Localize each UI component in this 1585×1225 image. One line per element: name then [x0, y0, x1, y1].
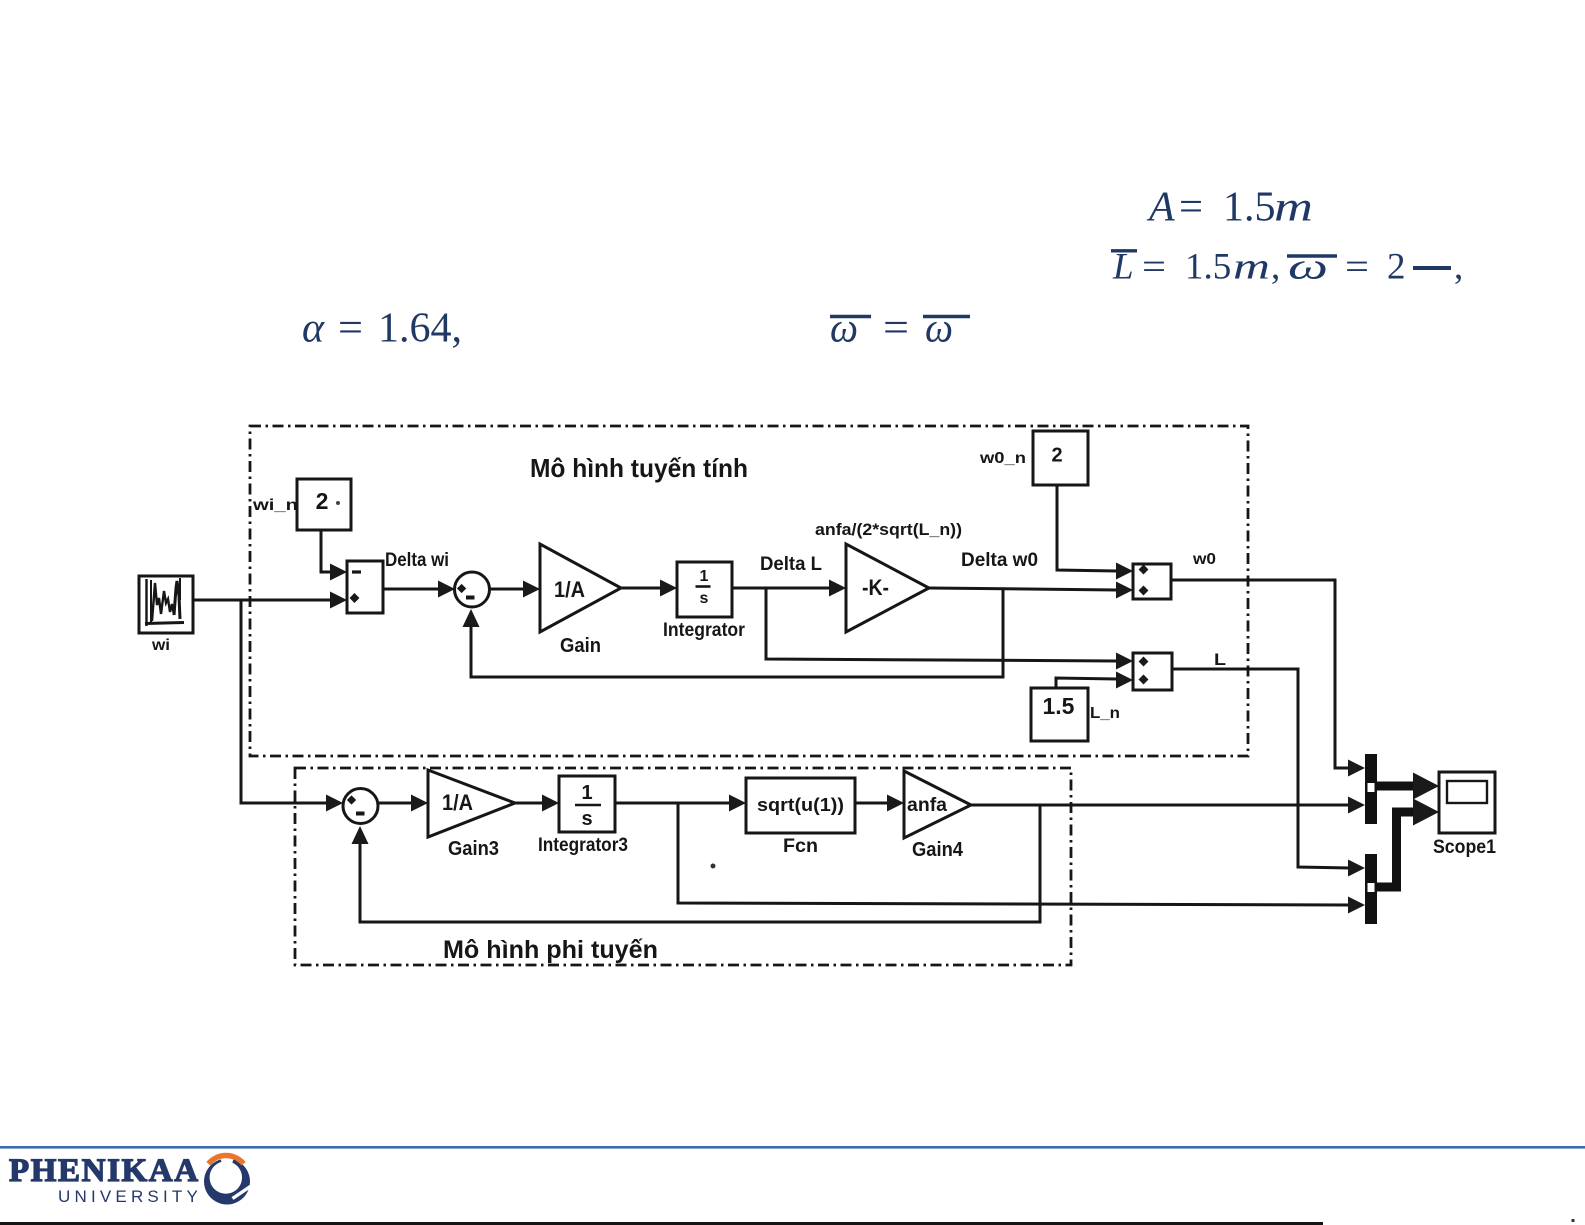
svg-text:UNIVERSITY: UNIVERSITY	[58, 1187, 202, 1206]
svg-text:Fcn: Fcn	[783, 836, 818, 857]
svg-text:=: =	[338, 306, 363, 352]
svg-text:1/A: 1/A	[554, 577, 585, 602]
svg-text:Mô hình tuyến tính: Mô hình tuyến tính	[530, 453, 748, 483]
svg-text:m: m	[1274, 185, 1313, 231]
svg-text:ω: ω	[830, 306, 858, 352]
svg-text:1.5: 1.5	[1185, 247, 1231, 288]
svg-text:2: 2	[1051, 445, 1062, 467]
svg-text:L: L	[1214, 650, 1226, 669]
svg-text:Integrator3: Integrator3	[538, 835, 628, 856]
svg-text:Scope1: Scope1	[1433, 837, 1496, 858]
svg-text:Gain: Gain	[560, 635, 601, 657]
svg-text:,: ,	[1454, 247, 1463, 288]
svg-text:1/A: 1/A	[442, 790, 473, 815]
svg-text:1.64,: 1.64,	[378, 306, 462, 352]
svg-text:ω: ω	[925, 306, 953, 352]
svg-text:wi_n: wi_n	[252, 497, 298, 514]
svg-text:2: 2	[1387, 247, 1406, 288]
svg-text:wi: wi	[151, 637, 170, 654]
svg-text:m: m	[1233, 247, 1270, 288]
svg-text:Delta w0: Delta w0	[961, 550, 1038, 571]
svg-text:=: =	[1345, 247, 1369, 288]
svg-text:Gain3: Gain3	[448, 838, 499, 860]
svg-text:anfa/(2*sqrt(L_n)): anfa/(2*sqrt(L_n))	[815, 521, 962, 539]
svg-text:L: L	[1112, 247, 1134, 288]
svg-text:=: =	[1142, 247, 1166, 288]
svg-text:1.5: 1.5	[1223, 185, 1276, 231]
svg-text:w0: w0	[1192, 551, 1216, 568]
svg-text:A: A	[1146, 185, 1175, 231]
svg-text:1: 1	[581, 782, 592, 804]
svg-text:Mô hình phi tuyến: Mô hình phi tuyến	[443, 936, 658, 964]
svg-text:Gain4: Gain4	[912, 839, 964, 861]
svg-text:-K-: -K-	[862, 575, 889, 600]
svg-text:,: ,	[1271, 247, 1280, 288]
svg-text:Delta L: Delta L	[760, 554, 822, 575]
svg-text:s: s	[700, 590, 709, 607]
svg-text:2: 2	[316, 488, 329, 514]
svg-text:L_n: L_n	[1090, 705, 1120, 722]
svg-text:ω: ω	[1288, 247, 1328, 288]
svg-text:sqrt(u(1)): sqrt(u(1))	[757, 795, 844, 815]
svg-text:1: 1	[700, 568, 709, 585]
svg-text:=: =	[883, 306, 909, 352]
svg-text:anfa: anfa	[907, 795, 947, 816]
svg-text:Delta wi: Delta wi	[385, 550, 449, 571]
svg-text:s: s	[581, 808, 592, 830]
svg-text:Integrator: Integrator	[663, 620, 746, 641]
svg-text:w0_n: w0_n	[979, 450, 1026, 467]
svg-text:PHENIKAA: PHENIKAA	[9, 1153, 200, 1189]
svg-text:=: =	[1179, 185, 1203, 231]
svg-text:1.5: 1.5	[1043, 693, 1075, 719]
svg-text:α: α	[302, 306, 325, 352]
